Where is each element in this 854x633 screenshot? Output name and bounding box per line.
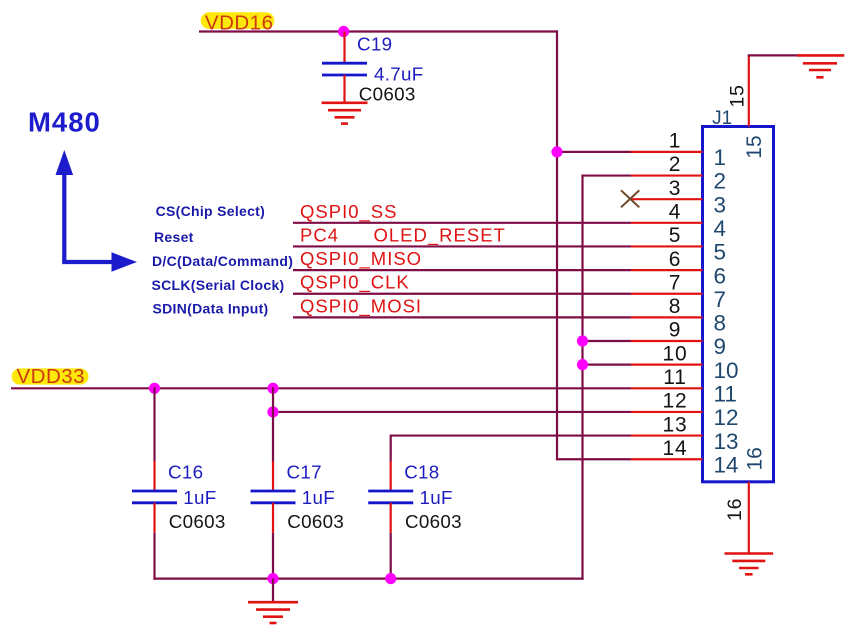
footprint C0603 of C17	[287, 511, 344, 532]
pin number 9 outside	[669, 319, 681, 342]
junction dot VDD16/C19	[338, 26, 349, 37]
svg-text:16: 16	[743, 447, 766, 470]
wire VDD33 rail	[11, 387, 631, 389]
pin 2 stub	[631, 174, 703, 176]
svg-text:15: 15	[727, 84, 749, 107]
pin 3 stub	[631, 198, 703, 200]
svg-text:1uF: 1uF	[183, 487, 216, 508]
svg-text:9: 9	[714, 334, 727, 359]
label C16	[168, 461, 203, 482]
svg-text:6: 6	[714, 263, 727, 288]
wire VDD16 to pin 14	[556, 458, 631, 460]
pin 10 stub	[631, 364, 703, 366]
svg-text:3: 3	[714, 192, 727, 217]
pin number 7 outside	[669, 271, 681, 294]
pin number 15 outside	[727, 84, 749, 107]
pin number 5 outside	[669, 224, 681, 247]
wire net to pin 5	[293, 245, 631, 247]
pin number 8 outside	[669, 295, 681, 318]
wire pin 13	[391, 434, 631, 436]
footprint C0603 of C18	[405, 511, 462, 532]
svg-text:C0603: C0603	[169, 511, 226, 532]
junction dot pin12/C17	[267, 406, 278, 417]
label SCLK(Serial Clock)	[152, 277, 285, 293]
wire C18 bottom	[390, 533, 392, 580]
pin 8 stub	[631, 316, 703, 318]
pin 7 stub	[631, 293, 703, 295]
pin number 7 inside	[714, 287, 727, 312]
pin 4 stub	[631, 222, 703, 224]
svg-text:1: 1	[669, 130, 681, 153]
capacitor C18 plates	[368, 491, 413, 503]
refdes J1	[712, 108, 732, 129]
pin number 10 inside	[714, 358, 739, 383]
no-connect X pin 3	[621, 190, 639, 207]
wire net to pin 6	[293, 269, 631, 271]
capacitor C19 pin top	[343, 32, 345, 64]
svg-text:6: 6	[669, 248, 681, 271]
svg-text:11: 11	[714, 382, 737, 407]
svg-text:2: 2	[669, 153, 681, 176]
svg-text:Reset: Reset	[154, 229, 194, 245]
svg-text:14: 14	[663, 437, 688, 460]
pin number 10 outside	[663, 342, 688, 365]
svg-text:C17: C17	[287, 461, 322, 482]
net label OLED_RESET	[374, 224, 506, 246]
wire GND to pin 2	[583, 174, 632, 176]
ground top right	[797, 55, 844, 77]
pin number 2 outside	[669, 153, 681, 176]
pin number 5 inside	[714, 240, 727, 265]
footprint C0603 of C16	[169, 511, 226, 532]
pin number 1 inside	[714, 145, 727, 170]
svg-text:QSPI0_MOSI: QSPI0_MOSI	[300, 295, 422, 317]
pin number 12 inside	[714, 405, 739, 430]
wire VDD16 horizontal	[199, 30, 557, 32]
svg-text:10: 10	[663, 342, 688, 365]
svg-text:4.7uF: 4.7uF	[374, 64, 424, 85]
svg-text:4: 4	[714, 216, 727, 241]
svg-text:8: 8	[714, 311, 727, 336]
ground below pin 16	[725, 554, 774, 575]
capacitor C19 plates	[322, 63, 367, 75]
pin number 1 outside	[669, 130, 681, 153]
pin number 11 inside	[714, 382, 737, 407]
junction dot pin9	[577, 335, 588, 346]
power label VDD33	[12, 365, 89, 388]
label C18	[404, 461, 439, 482]
net label QSPI0_CLK	[300, 272, 410, 294]
svg-text:CS(Chip Select): CS(Chip Select)	[156, 203, 266, 219]
title M480	[28, 106, 101, 137]
svg-text:C18: C18	[404, 461, 439, 482]
label SDIN(Data Input)	[153, 301, 269, 317]
pin number 16 inside	[743, 447, 766, 470]
svg-text:J1: J1	[712, 108, 732, 129]
capacitor C17 pin bottom	[272, 503, 274, 533]
svg-text:C0603: C0603	[359, 83, 416, 104]
wire C17 top	[272, 387, 274, 461]
junction dot C18 bottom	[385, 573, 396, 584]
value 4.7uF	[374, 64, 424, 85]
wire C17 ground stub	[272, 579, 274, 603]
svg-text:OLED_RESET: OLED_RESET	[374, 224, 506, 246]
pin number 2 inside	[714, 169, 727, 194]
capacitor C16 plates	[132, 491, 177, 503]
svg-text:8: 8	[669, 295, 681, 318]
pin number 4 outside	[669, 201, 681, 224]
junction dot C17 bottom	[267, 573, 278, 584]
svg-text:C19: C19	[357, 33, 392, 54]
value 1uF of C17	[302, 487, 335, 508]
junction dot pin1/VDD16	[551, 146, 562, 157]
svg-text:D/C(Data/Command): D/C(Data/Command)	[152, 253, 293, 269]
net label QSPI0_SS	[300, 201, 397, 223]
svg-text:13: 13	[714, 429, 739, 454]
svg-text:14: 14	[714, 452, 739, 477]
pin number 4 inside	[714, 216, 727, 241]
svg-text:1uF: 1uF	[420, 487, 453, 508]
svg-text:QSPI0_MISO: QSPI0_MISO	[300, 248, 422, 270]
svg-text:C0603: C0603	[405, 511, 462, 532]
junction dot pin10	[577, 359, 588, 370]
label CS(Chip Select)	[156, 203, 266, 219]
svg-text:7: 7	[669, 271, 681, 294]
svg-text:1uF: 1uF	[302, 487, 335, 508]
svg-text:7: 7	[714, 287, 727, 312]
ground below C17	[248, 602, 298, 623]
label C17	[287, 461, 322, 482]
label Reset	[154, 229, 194, 245]
arrow M480	[56, 150, 138, 272]
pin number 6 outside	[669, 248, 681, 271]
svg-text:QSPI0_CLK: QSPI0_CLK	[300, 272, 410, 294]
svg-text:1: 1	[714, 145, 727, 170]
wire net to pin 8	[293, 316, 631, 318]
pin 6 stub	[631, 269, 703, 271]
wire C18 top drop	[390, 434, 392, 461]
pin 1 stub	[631, 151, 703, 153]
svg-text:3: 3	[669, 177, 681, 200]
capacitor C18 pin top	[390, 461, 392, 491]
svg-text:PC4: PC4	[300, 224, 339, 245]
value 1uF of C18	[420, 487, 453, 508]
pin 15 stub	[748, 55, 750, 126]
svg-text:C0603: C0603	[287, 511, 344, 532]
pin number 14 inside	[714, 452, 739, 477]
ground below C19	[322, 103, 368, 124]
capacitor C16 pin bottom	[153, 503, 155, 533]
svg-text:C16: C16	[168, 461, 203, 482]
pin number 9 inside	[714, 334, 727, 359]
svg-text:16: 16	[724, 498, 746, 521]
pin 9 stub	[631, 340, 703, 342]
footprint C0603 of C19	[359, 83, 416, 104]
wire C16 bottom	[153, 533, 155, 580]
wire GND vertical	[581, 174, 583, 579]
pin number 8 inside	[714, 311, 727, 336]
connector J1 body	[703, 127, 774, 482]
pin 5 stub	[631, 245, 703, 247]
svg-text:12: 12	[714, 405, 739, 430]
pin 12 stub	[631, 411, 703, 413]
capacitor C18 pin bottom	[390, 503, 392, 533]
svg-text:15: 15	[743, 135, 766, 158]
pin number 3 outside	[669, 177, 681, 200]
wire GND bottom rail	[153, 577, 583, 579]
svg-text:4: 4	[669, 201, 681, 224]
svg-text:5: 5	[669, 224, 681, 247]
wire C17 bottom	[272, 533, 274, 580]
svg-text:SDIN(Data Input): SDIN(Data Input)	[153, 301, 269, 317]
net label PC4	[300, 224, 339, 245]
pin 14 stub	[631, 458, 703, 460]
pin number 6 inside	[714, 263, 727, 288]
svg-text:2: 2	[714, 169, 727, 194]
pin number 13 outside	[663, 413, 688, 436]
power label VDD16	[201, 11, 275, 34]
value 1uF of C16	[183, 487, 216, 508]
label C19	[357, 33, 392, 54]
pin number 12 outside	[663, 390, 688, 413]
svg-text:13: 13	[663, 413, 688, 436]
svg-text:M480: M480	[28, 106, 101, 137]
wire net to pin 4	[293, 222, 631, 224]
svg-text:9: 9	[669, 319, 681, 342]
pin number 14 outside	[663, 437, 688, 460]
svg-text:SCLK(Serial Clock): SCLK(Serial Clock)	[152, 277, 285, 293]
svg-text:10: 10	[714, 358, 739, 383]
wire GND to pin 9	[583, 340, 632, 342]
wire pin 12	[273, 411, 631, 413]
pin number 11 outside	[663, 366, 686, 389]
svg-text:VDD33: VDD33	[17, 365, 86, 388]
net label QSPI0_MISO	[300, 248, 422, 270]
pin 16 stub	[748, 482, 750, 554]
wire VDD16 vertical	[556, 30, 558, 459]
net label QSPI0_MOSI	[300, 295, 422, 317]
junction dot C16 top	[149, 383, 160, 394]
pin number 16 outside	[724, 498, 746, 521]
svg-text:QSPI0_SS: QSPI0_SS	[300, 201, 397, 223]
pin number 13 inside	[714, 429, 739, 454]
junction dot C17 top	[267, 383, 278, 394]
pin 11 stub	[631, 387, 703, 389]
pin number 3 inside	[714, 192, 727, 217]
capacitor C19 pin bottom	[343, 75, 345, 103]
pin 13 stub	[631, 434, 703, 436]
wire C16 top	[153, 387, 155, 461]
wire GND to pin 10	[583, 364, 632, 366]
svg-text:11: 11	[663, 366, 686, 389]
svg-text:12: 12	[663, 390, 688, 413]
capacitor C17 plates	[251, 491, 296, 503]
capacitor C16 pin top	[153, 461, 155, 491]
label D/C(Data/Command)	[152, 253, 293, 269]
wire net to pin 7	[293, 293, 631, 295]
wire pin15 to GND	[748, 54, 797, 56]
capacitor C17 pin top	[272, 461, 274, 491]
svg-text:5: 5	[714, 240, 727, 265]
pin number 15 inside	[743, 135, 766, 158]
wire pin 1 branch	[557, 151, 631, 153]
